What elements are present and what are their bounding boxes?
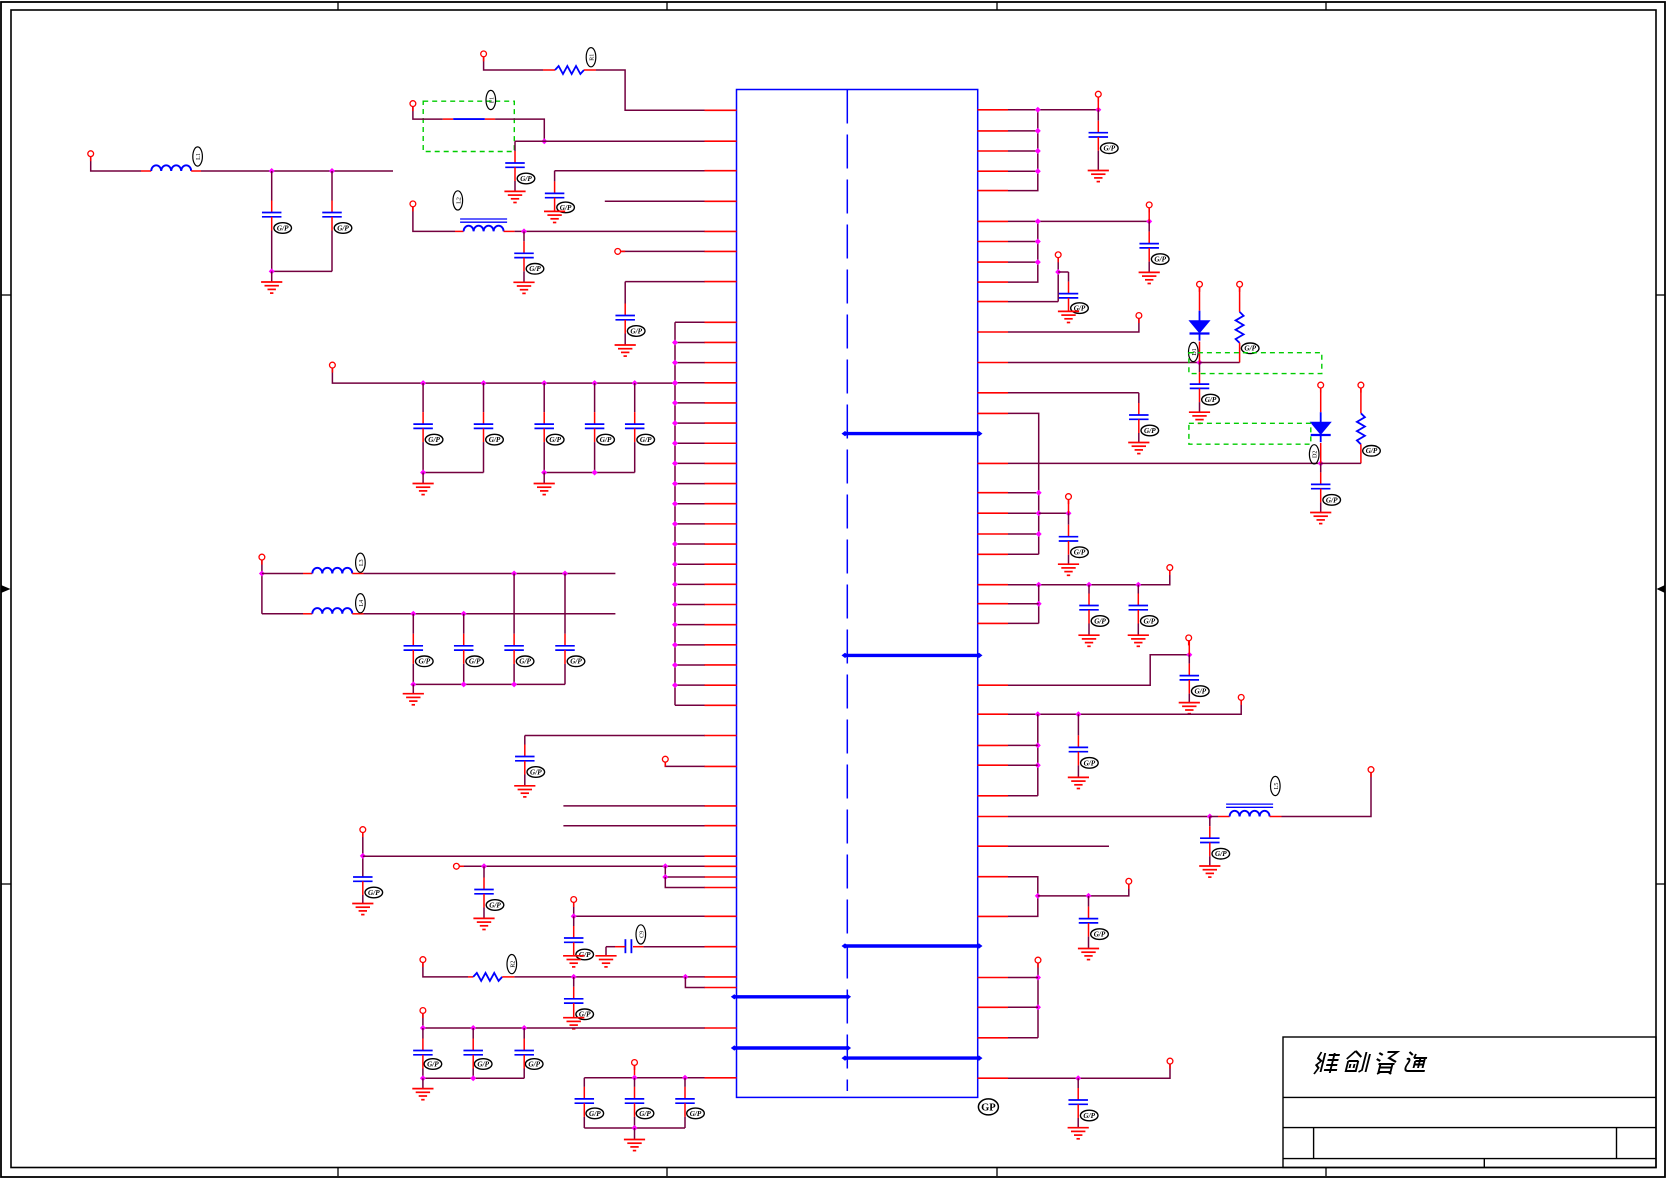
wire pin817 [1008,816,1210,818]
capacitor C14 [1139,244,1159,248]
junction [662,863,668,869]
capacitor Cc544 [534,424,554,428]
capacitor C17 [1129,415,1149,419]
wire col5c [1008,795,1038,797]
ground C19 [1310,513,1331,524]
junction [1036,490,1042,496]
wire pin141 [515,140,705,142]
junction [410,611,416,617]
wire col2w262 [1008,261,1038,263]
wire pin856 [363,855,705,857]
node J3 [410,201,416,207]
capacitor Cc635 [625,424,645,428]
junction [470,1075,476,1081]
svg-text:G/P: G/P [419,658,431,666]
capacitor C23 bottom lead [1077,752,1079,778]
pin l3 [705,805,737,807]
capacitor Cm3 blead [513,650,515,684]
inductor L3 lead [303,573,312,575]
capacitor C10 [564,938,584,942]
wire pin302 [1008,301,1058,303]
capacitor C6 lead [331,171,333,213]
wire pin171 [555,170,705,172]
capacitor C17 lead [1138,393,1140,415]
svg-text:G/P: G/P [630,327,642,335]
pin 1 [705,109,737,111]
pin c1 [705,341,737,343]
node J9 [360,827,366,833]
wire pin1078L [584,1077,705,1079]
svg-text:GP: GP [981,1103,996,1114]
ground C17 [1128,443,1149,454]
pin c9 [705,503,737,505]
wire L2-pin231 [515,230,705,232]
svg-text:G/P: G/P [1094,931,1106,939]
pin 5 [705,230,737,232]
svg-text:G/P: G/P [337,224,349,232]
junction [1035,893,1041,899]
wire J7a [261,560,263,614]
svg-text:L1: L1 [196,153,202,160]
diode D2 lead2 [1320,443,1322,463]
inductor L4 lead2 [352,613,363,615]
capacitor C3 [514,253,534,257]
ground Gc2 [534,484,555,495]
junction [672,581,678,587]
inductor L2 lead [455,230,464,232]
node J1 [481,51,487,57]
fuse F2 box [1189,353,1322,374]
capacitor C20 lead [1088,585,1090,606]
resistor R1 lead [543,69,555,71]
value label C14 [1151,254,1169,265]
value label Cc484 [486,434,504,445]
pin 6 [705,250,737,252]
svg-text:G/P: G/P [1083,1112,1095,1120]
wire pin685 [1008,655,1189,686]
capacitor Cb584 [575,1099,595,1103]
inductor L3 lead2 [352,573,363,575]
inductor L1 lead [141,170,151,172]
pin 7 [705,281,737,283]
node J14 [632,1060,638,1066]
inductor L1 [151,165,191,171]
resistor R3 lead2 [1239,343,1241,363]
ground C2 [544,211,565,222]
svg-text:G/P: G/P [519,658,531,666]
J25 lead [1188,641,1190,655]
pin r282 [978,281,1009,283]
capacitor Cg473 [463,1051,483,1055]
capacitor Cc635 lead [634,383,636,424]
wire col4 [1038,585,1040,624]
capacitor C2 bottom lead [554,198,556,212]
wire br877 [665,866,705,877]
junction [672,481,678,487]
capacitor C22 lead [1188,655,1190,676]
capacitor C19 [1311,484,1331,488]
junction [360,853,366,859]
inductor L5 lead2 [1270,816,1282,818]
capacitor C1 bottom lead [514,167,516,191]
ground C1 [504,191,525,202]
wire pin282 [625,281,705,283]
pin c17 [705,664,737,666]
pin r110 [978,109,1009,111]
svg-text:G/P: G/P [1215,850,1227,858]
svg-text:F1: F1 [489,97,495,103]
capacitor C23 [1069,747,1089,751]
node J29 [1035,957,1041,963]
pin c19 [705,704,737,706]
wire J17b [1058,271,1068,273]
capacitor C19 lead [1320,463,1322,484]
resistor R2 lead2 [502,976,514,978]
junction [672,541,678,547]
capacitor C16 lead [1199,363,1201,385]
junction [511,571,517,577]
svg-text:G/P: G/P [1144,427,1156,435]
svg-text:G/P: G/P [640,436,652,444]
ground C23 [1068,777,1089,788]
pin r604 [978,603,1009,605]
svg-text:G/P: G/P [589,1110,601,1118]
wire cmjoin [413,683,565,685]
node J16 [1146,202,1152,208]
capacitor C3 lead [523,231,525,253]
junction [1186,652,1192,658]
junction [259,571,265,577]
junction [511,681,517,687]
wire comb12 [675,563,705,565]
value label C19 [1323,495,1341,506]
wire ccjoin1 [423,472,483,474]
wire col4b [1008,622,1039,624]
capacitor C24 [1200,838,1220,842]
capacitor Cm4 lead [564,574,566,646]
capacitor C23 lead [1077,714,1079,747]
inductor L4 [312,608,352,614]
wire comb8 [675,483,705,485]
designator L2 [453,191,463,210]
junction [420,1075,426,1081]
wire col5 [1037,714,1039,796]
capacitor Cm3 [504,646,523,650]
inductor L4 lead [303,613,312,615]
designator L3 [356,553,366,572]
junction [672,662,678,668]
wire col1w110 [1008,109,1038,111]
wire comb11 [675,543,705,545]
node J7 [259,554,265,560]
svg-text:G/P: G/P [520,175,532,183]
resistor R2 lead [468,976,473,978]
capacitor Cc635 bottom lead [634,428,636,472]
capacitor C18 bottom lead [1068,541,1070,564]
svg-text:G/P: G/P [530,768,542,776]
capacitor C5 [262,213,282,217]
junction [541,380,547,386]
connector U1 section bar3 [845,944,979,947]
pin l10 [705,946,737,948]
svg-text:G/P: G/P [549,436,561,444]
junction [329,168,335,174]
svg-text:G/P: G/P [1144,617,1156,625]
ground C18 [1058,564,1079,575]
pin l14 [705,1077,737,1079]
wire col1w131 [1008,130,1038,132]
wire br987 [685,977,705,988]
capacitor Cg423 [413,1051,433,1055]
pin r685 [978,684,1009,686]
wire L5left [1210,816,1218,818]
wire col3b [1039,512,1069,514]
svg-text:C9: C9 [639,931,645,938]
junction [1095,107,1101,113]
capacitor C6 bottom lead [331,217,333,272]
junction [1086,893,1092,899]
pin l6 [705,865,737,867]
wire R1-pin110 [596,70,705,110]
pin r242 [978,241,1009,243]
capacitor C7 lead [524,736,526,757]
wire w977 [1008,977,1038,979]
value label C8 [365,887,383,898]
pin r1078 [978,1077,1009,1079]
diode D1 [1190,311,1210,341]
node J18 [1136,313,1142,319]
junction [1086,582,1092,588]
pin l2 [705,765,737,767]
junction [1197,360,1203,366]
pin r171 [978,170,1009,172]
svg-text:G/P: G/P [690,1110,702,1118]
junction [1066,510,1072,516]
svg-text:G/P: G/P [1244,345,1256,353]
pin r513 [978,512,1009,514]
junction [1035,239,1041,245]
value label Cg423 [424,1059,442,1070]
value label Cm4 [567,656,585,667]
pin r534 [978,533,1009,535]
svg-text:G/P: G/P [639,1110,651,1118]
svg-text:G/P: G/P [489,901,501,909]
node J20 [1237,281,1243,287]
wire J29a [1037,963,1039,1038]
junction [672,642,678,648]
designator L4 [356,594,366,613]
designator D2 [1309,445,1319,464]
value label C25 [1091,929,1109,940]
svg-text:G/P: G/P [1205,396,1217,404]
wire J2a [413,107,443,119]
wire pin362 [1008,362,1200,364]
value label C10 [576,949,594,960]
ground G8 [352,904,373,915]
junction [662,874,668,880]
svg-text:G/P: G/P [1366,447,1378,455]
capacitor C25 bottom lead [1088,923,1090,949]
capacitor Cc423 bottom lead [422,428,424,472]
pin c6 [705,442,737,444]
junction [592,470,598,476]
wire L1-right [201,170,393,172]
ground C7 [514,786,535,797]
junction [1035,975,1041,981]
junction [1075,711,1081,717]
junction [571,913,577,919]
capacitor C19 bottom lead [1320,489,1322,513]
junction [1035,259,1041,265]
value label Cm1 [416,656,434,667]
wire pin251 [621,250,705,252]
capacitor C25 lead [1088,896,1090,919]
capacitor C8 blead [362,881,364,903]
capacitor Cm1 lead [412,614,414,646]
capacitor C12 bottom lead [573,1003,575,1018]
diode D2 lead [1320,388,1322,412]
pin c8 [705,483,737,485]
capacitor C11 [625,939,631,953]
designator L5 [1271,776,1281,795]
inductor L5 [1226,804,1273,816]
capacitor C17 bottom lead [1138,419,1140,442]
ground C3 [513,282,534,293]
wire comb4 [675,402,705,404]
wire col5b [1008,764,1038,766]
pin c13 [705,583,737,585]
ground C26 [1068,1128,1089,1139]
ground G11 [595,956,616,967]
capacitor C16 bottom lead [1199,388,1201,412]
pin l4 [705,825,737,827]
wire col3w554 [1008,553,1039,555]
node J17 [1055,252,1061,258]
value label C18 [1071,547,1089,558]
junction [541,470,547,476]
junction [632,1125,638,1131]
fuse F1 box [423,101,514,151]
value label Cc595 [597,434,615,445]
svg-text:R2: R2 [510,961,516,968]
wire comb10 [675,523,705,525]
pin r817 [978,816,1009,818]
svg-text:L2: L2 [456,197,462,204]
wire comb16 [675,644,705,646]
pin r1038 [978,1037,1009,1039]
junction [672,622,678,628]
ground G5 [261,282,282,293]
junction [562,571,568,577]
value label Cg524 [525,1059,543,1070]
resistor R4 [1357,413,1365,444]
wire comb1 [675,341,705,343]
capacitor C13 lead [1097,110,1099,133]
junction [672,561,678,567]
value label C7 [527,767,545,778]
node J24 [1167,565,1173,571]
junction [1035,762,1041,768]
ground C20 [1078,635,1099,646]
svg-text:L3: L3 [359,559,365,566]
junction [672,380,678,386]
pin r393 [978,392,1009,394]
value label C15 [1071,303,1089,314]
wire pin866 [460,865,706,867]
capacitor C6 [322,213,342,217]
wire comb bus [674,322,676,705]
pin r191 [978,190,1009,192]
svg-text:R1: R1 [590,54,596,61]
wire pin846 [1008,845,1109,847]
value label C24 [1212,848,1230,859]
junction [410,681,416,687]
pin c16 [705,644,737,646]
pin l7 [705,876,737,878]
pin r463 [978,462,1009,464]
wire col4a [1008,603,1039,605]
junction [672,400,678,406]
capacitor C22 bottom lead [1188,680,1190,703]
capacitor Cc423 [413,424,433,428]
capacitor C18 lead [1068,513,1070,537]
junction [682,974,688,980]
svg-text:G/P: G/P [1084,759,1096,767]
pin r413 [978,412,1009,414]
wire pin393 [1008,392,1139,394]
value label R3 [1241,343,1259,354]
wire comb18 [675,684,705,686]
pin l1 [705,735,737,737]
svg-text:G/P: G/P [368,889,380,897]
J15 lead [1097,97,1099,110]
capacitor C26 lead [1077,1078,1079,1100]
pin r302 [978,301,1009,303]
wire pin1078R [1008,1064,1170,1078]
node J27 [1368,767,1374,773]
pin c2 [705,362,737,364]
capacitor C1 lead [514,141,516,163]
wire comb19 [675,704,705,706]
junction [672,602,678,608]
svg-text:G/P: G/P [477,1060,489,1068]
junction [682,1075,688,1081]
junction [269,168,275,174]
junction [672,460,678,466]
capacitor C21 lead [1137,585,1139,606]
J16 lead [1148,208,1150,221]
capacitor C14 bottom lead [1148,248,1150,273]
capacitor C2 [545,193,565,197]
wire comb0 [675,321,705,323]
node J10 [454,863,460,869]
junction [1075,1075,1081,1081]
svg-text:L5: L5 [1274,783,1280,790]
capacitor C4 [615,316,635,320]
wire w573a [262,573,303,575]
wire pin332 [1008,319,1139,332]
node J13 [420,1008,426,1014]
value label Cc544 [546,434,564,445]
capacitor Cg423 lead [422,1028,424,1051]
capacitor Cm4 blead [564,650,566,684]
wire ccjoin2 [544,472,635,474]
capacitor Cc544 bottom lead [543,428,545,472]
capacitor Cb634 [625,1099,645,1103]
pin l13 [705,1027,737,1029]
wire col3w513 [1008,512,1039,514]
junction [461,611,467,617]
